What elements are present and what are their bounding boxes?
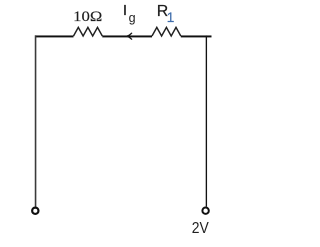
- label Ig: [123, 2, 136, 25]
- svg-text:g: g: [129, 11, 136, 25]
- svg-text:I: I: [123, 2, 127, 19]
- resistor R1 (zigzag): [152, 27, 181, 36]
- label 2V: [192, 220, 210, 237]
- svg-text:2V: 2V: [192, 220, 210, 237]
- terminal: left open circle: [32, 208, 38, 214]
- svg-text:10Ω: 10Ω: [73, 9, 102, 25]
- terminal: right open circle (2V): [202, 208, 208, 214]
- label R1: [157, 3, 175, 25]
- current arrow Ig (arrowhead pointing left): [126, 33, 131, 39]
- wire: segment between resistors: [102, 35, 152, 37]
- wire: top-right horizontal segment with stub past junction: [181, 35, 212, 37]
- label 10Ω: [73, 9, 102, 25]
- wire: right vertical: [206, 35, 207, 206]
- wire: left vertical: [35, 35, 37, 206]
- wire: top-left horizontal segment: [35, 35, 74, 37]
- resistor 10Ω (zigzag): [74, 27, 103, 36]
- svg-text:1: 1: [167, 9, 175, 25]
